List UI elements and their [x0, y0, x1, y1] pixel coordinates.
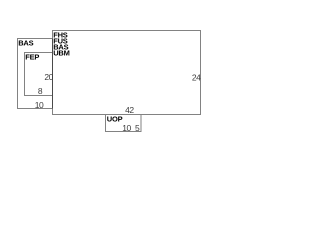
svg-text:FEP: FEP — [25, 53, 39, 62]
UOP porch outline — [106, 115, 142, 132]
left BAS section outline — [18, 39, 53, 109]
svg-text:UBM: UBM — [53, 49, 69, 58]
wire: doubled left edge segment (BAS box right edge over main left edge) — [52, 39, 54, 109]
svg-text:10: 10 — [122, 123, 131, 133]
main building outline (FHS/FUS/BAS/UBM block) — [53, 31, 201, 115]
FEP porch outline — [25, 53, 53, 96]
svg-text:BAS: BAS — [18, 38, 33, 47]
svg-text:24: 24 — [192, 73, 201, 83]
svg-text:42: 42 — [125, 105, 134, 115]
svg-text:10: 10 — [35, 100, 44, 110]
svg-text:UOP: UOP — [107, 114, 123, 123]
svg-text:20: 20 — [44, 72, 53, 82]
